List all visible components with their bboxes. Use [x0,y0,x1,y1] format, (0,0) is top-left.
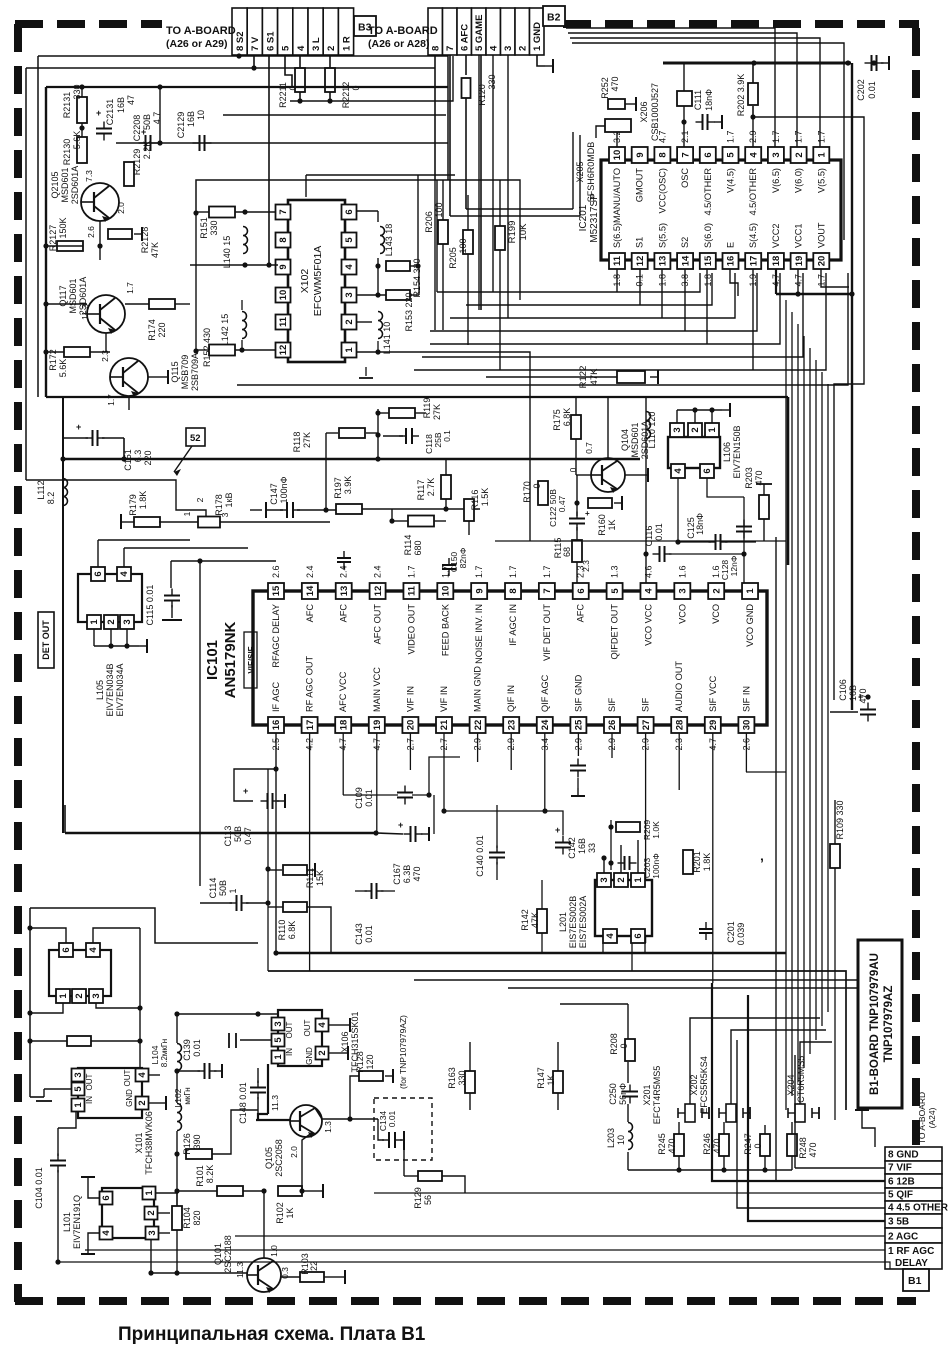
svg-text:SIF: SIF [641,697,651,712]
svg-text:2: 2 [711,588,722,593]
svg-text:50B: 50B [218,880,228,896]
svg-text:10: 10 [278,290,289,301]
svg-text:C109: C109 [354,787,364,809]
svg-text:56nФ: 56nФ [618,1083,628,1105]
svg-text:0.47: 0.47 [557,495,567,512]
svg-text:4.5/OTHER: 4.5/OTHER [703,168,713,216]
svg-text:82nФ: 82nФ [458,548,468,569]
svg-text:R126: R126 [182,1133,192,1155]
svg-text:IF AGC IN: IF AGC IN [508,604,518,646]
svg-text:6: 6 [93,571,104,576]
svg-text:14: 14 [305,585,316,596]
svg-text:23: 23 [506,720,517,731]
svg-text:R128: R128 [355,1051,365,1073]
svg-text:V(6.0): V(6.0) [794,168,804,193]
svg-text:R111: R111 [305,868,315,888]
svg-text:1 R: 1 R [341,36,352,51]
svg-text:SFSH6R0MDB: SFSH6R0MDB [586,142,596,203]
svg-text:25: 25 [574,719,585,730]
svg-text:8: 8 [658,152,669,157]
svg-text:4: 4 [119,571,130,577]
svg-text:28: 28 [674,720,685,731]
svg-text:FEED BACK: FEED BACK [440,603,450,656]
svg-text:L105: L105 [95,680,105,700]
svg-text:V(6.5): V(6.5) [771,168,781,193]
svg-text:C142: C142 [567,837,577,859]
svg-text:OUT: OUT [285,1021,294,1038]
svg-text:0.47: 0.47 [243,827,253,845]
svg-text:Q105: Q105 [264,1147,274,1169]
svg-text:R152 430: R152 430 [202,328,212,367]
svg-text:7: 7 [278,209,289,214]
svg-text:CSB1000J527: CSB1000J527 [650,83,660,141]
svg-text:L112: L112 [36,480,46,499]
svg-text:C2129: C2129 [176,112,186,139]
svg-text:IN: IN [85,1096,94,1104]
svg-text:R174: R174 [147,319,157,341]
svg-text:VCC1: VCC1 [794,223,804,248]
svg-text:4: 4 [644,588,655,594]
svg-text:+: + [398,820,403,830]
svg-text:E: E [726,242,736,248]
svg-text:5: 5 [281,45,292,51]
svg-text:4: 4 [748,152,759,158]
svg-text:L203: L203 [606,1128,616,1148]
svg-text:330: 330 [487,74,497,89]
svg-text:8.2: 8.2 [46,492,56,505]
svg-text:MSD601: MSD601 [630,422,640,457]
svg-text:33: 33 [587,843,597,853]
svg-text:X101: X101 [134,1132,144,1153]
svg-text:VCO: VCO [711,604,721,624]
svg-text:18: 18 [771,256,782,267]
svg-text:TO A-BOARD: TO A-BOARD [368,25,438,37]
svg-text:3: 3 [599,877,610,882]
svg-text:2: 2 [317,1050,328,1055]
svg-text:4: 4 [137,1072,148,1078]
svg-text:IC101: IC101 [204,640,221,680]
svg-text:GND: GND [125,1089,134,1107]
svg-text:8: 8 [278,237,289,242]
svg-text:C116: C116 [644,526,654,547]
svg-text:390: 390 [192,1134,202,1149]
svg-text:6.3B: 6.3B [402,865,412,884]
svg-text:SIF: SIF [607,697,617,712]
svg-text:TFCH38MVK06: TFCH38MVK06 [144,1111,154,1175]
svg-text:29: 29 [708,720,719,731]
svg-text:OSC: OSC [680,168,690,188]
svg-text:DET OUT: DET OUT [41,620,51,660]
svg-text:B1: B1 [908,1275,922,1287]
svg-text:R163: R163 [447,1067,457,1089]
svg-text:OUT: OUT [123,1069,132,1086]
svg-text:MAIN VCC: MAIN VCC [372,667,382,712]
svg-text:10: 10 [441,586,452,597]
svg-text:R110: R110 [277,920,287,941]
svg-text:7.3: 7.3 [84,170,94,182]
svg-text:6: 6 [633,933,644,938]
svg-text:L140 15: L140 15 [222,236,232,269]
svg-text:2.2K: 2.2K [142,141,152,160]
svg-text:R160: R160 [597,514,607,536]
svg-text:12: 12 [635,256,646,267]
svg-text:R252: R252 [600,77,610,99]
svg-text:R116: R116 [470,490,480,511]
svg-text:0: 0 [532,483,542,488]
svg-text:1K: 1K [607,519,617,530]
svg-text:R202 3.9K: R202 3.9K [736,74,746,117]
svg-text:21: 21 [439,719,450,730]
svg-text:R109 330: R109 330 [835,800,845,839]
svg-text:5.6K: 5.6K [72,131,82,150]
svg-text:12nФ: 12nФ [729,556,739,577]
svg-text:5: 5 [610,588,621,594]
svg-text:R170: R170 [522,481,532,503]
svg-text:15K: 15K [315,870,325,886]
svg-text:5: 5 [273,1037,284,1043]
svg-text:VCC(OSC): VCC(OSC) [657,168,667,213]
svg-text:3: 3 [503,46,514,51]
svg-text:15: 15 [703,255,714,266]
svg-text:X206: X206 [639,101,649,122]
svg-text:7: 7 [542,588,553,593]
svg-text:3: 3 [771,152,782,157]
svg-text:2: 2 [518,46,529,51]
svg-text:17: 17 [748,256,759,267]
svg-text:C114: C114 [208,878,218,899]
svg-text:EIS7ES002B: EIS7ES002B [568,896,578,949]
svg-text:6: 6 [702,468,713,473]
svg-text:R118: R118 [292,432,302,453]
svg-text:16B: 16B [577,838,587,854]
svg-text:1.7: 1.7 [542,565,552,578]
svg-text:R129: R129 [413,1187,423,1209]
svg-text:MAIN GND: MAIN GND [473,666,483,712]
svg-text:5: 5 [344,237,355,243]
svg-text:16B: 16B [116,97,126,113]
svg-text:11: 11 [612,255,623,266]
svg-text:VCO: VCO [677,604,687,624]
svg-text:DELAY: DELAY [895,1258,928,1269]
svg-text:R2212: R2212 [341,82,351,109]
svg-text:4: 4 [673,468,684,474]
svg-text:11: 11 [407,585,418,596]
svg-text:470: 470 [412,866,422,881]
svg-text:6: 6 [61,947,72,952]
svg-text:16: 16 [726,256,737,267]
svg-text:3: 3 [273,1021,284,1026]
svg-text:1.7: 1.7 [125,282,135,294]
svg-text:C2131: C2131 [105,99,115,126]
svg-text:L106: L106 [722,442,732,462]
svg-text:47K: 47K [150,242,160,258]
svg-text:100: 100 [458,238,468,253]
svg-text:EFCS5R5KS4: EFCS5R5KS4 [699,1056,709,1114]
svg-text:680: 680 [413,540,423,555]
svg-text:0.01: 0.01 [364,925,374,943]
svg-text:C202: C202 [856,79,866,101]
svg-text:EIV7EN034B: EIV7EN034B [105,663,115,716]
svg-text:15: 15 [271,585,282,596]
svg-text:+: + [585,509,590,518]
svg-text:L143 18: L143 18 [384,224,394,257]
svg-text:L101: L101 [62,1212,72,1232]
svg-text:3: 3 [122,619,133,624]
svg-text:2.7K: 2.7K [426,478,436,497]
svg-text:AN5179NK: AN5179NK [222,621,239,698]
svg-text:Принципальная схема. Плата B1: Принципальная схема. Плата B1 [118,1324,426,1345]
svg-text:4: 4 [296,45,307,51]
svg-text:VCO VCC: VCO VCC [643,604,653,646]
svg-text:2 AGC: 2 AGC [888,1232,918,1243]
svg-text:SIF IN: SIF IN [741,686,751,712]
svg-text:1: 1 [273,1054,284,1060]
svg-text:2: 2 [616,877,627,882]
svg-text:S(6.0): S(6.0) [703,223,713,248]
svg-text:+: + [96,108,101,118]
svg-text:2SC2058: 2SC2058 [274,1139,284,1177]
svg-text:3: 3 [91,993,102,998]
svg-text:0.1: 0.1 [442,430,452,442]
svg-text:4: 4 [344,264,355,270]
svg-text:C147: C147 [269,483,279,505]
svg-text:3.9K: 3.9K [343,476,353,495]
svg-text:1.7: 1.7 [474,565,484,578]
svg-text:L142 15: L142 15 [220,314,230,347]
svg-text:2: 2 [326,46,337,51]
svg-text:VCC2: VCC2 [771,223,781,248]
svg-text:8: 8 [431,46,442,51]
svg-text:2: 2 [137,1100,148,1105]
svg-text:10: 10 [616,1135,626,1145]
svg-text:1: 1 [817,152,828,158]
svg-text:R2130: R2130 [62,139,72,166]
svg-text:+: + [141,127,146,137]
svg-text:6 AFC: 6 AFC [460,24,471,51]
svg-text:MSB709: MSB709 [180,355,190,390]
svg-text:TNP107979AZ: TNP107979AZ [883,986,895,1063]
svg-text:0.01: 0.01 [192,1039,202,1057]
svg-text:QIFDET OUT: QIFDET OUT [610,604,620,660]
svg-text:27: 27 [641,720,652,731]
svg-text:1: 1 [144,1190,155,1196]
svg-text:VIF/SIF: VIF/SIF [247,646,256,673]
svg-text:6 S1: 6 S1 [265,31,276,51]
svg-text:9: 9 [474,588,485,593]
svg-text:0: 0 [568,467,578,472]
svg-text:6: 6 [344,209,355,214]
svg-text:2: 2 [146,1210,157,1215]
svg-text:мкГн: мкГн [183,1087,192,1104]
svg-text:22: 22 [473,720,484,731]
svg-text:2.4: 2.4 [305,565,315,578]
svg-text:1.0: 1.0 [269,1245,279,1257]
svg-text:13: 13 [658,256,669,267]
svg-text:+: + [243,786,248,796]
svg-text:EIV7EN150B: EIV7EN150B [732,425,742,478]
svg-text:OUT: OUT [303,1019,312,1036]
svg-text:RFAGC DELAY: RFAGC DELAY [271,604,281,668]
svg-text:(for TNP107979AZ): (for TNP107979AZ) [398,1015,408,1089]
svg-text:R179: R179 [128,494,138,516]
svg-text:MSD601: MSD601 [60,167,70,202]
svg-text:B1-BOARD TNP107979AU: B1-BOARD TNP107979AU [869,953,881,1095]
svg-text:1.7: 1.7 [771,130,781,143]
svg-text:0.7: 0.7 [584,442,594,454]
svg-text:MSD601: MSD601 [68,278,78,313]
svg-text:’: ’ [760,855,764,871]
svg-text:470: 470 [712,1138,722,1153]
svg-text:18nФ: 18nФ [695,513,705,535]
svg-text:C106: C106 [838,679,848,701]
svg-text:VIF IN: VIF IN [405,686,415,712]
svg-text:27K: 27K [432,404,442,420]
svg-text:Q115: Q115 [170,361,180,382]
svg-text:VIF DET OUT: VIF DET OUT [542,604,552,661]
svg-text:QIF IN: QIF IN [506,685,516,712]
svg-text:6.8K: 6.8K [562,408,572,427]
svg-text:6.3: 6.3 [133,450,143,463]
svg-text:1 GND: 1 GND [532,22,543,51]
svg-text:2.1: 2.1 [680,130,690,143]
svg-text:0.01: 0.01 [364,789,374,807]
svg-text:8 GND: 8 GND [888,1150,919,1161]
svg-text:4 4.5 OTHER: 4 4.5 OTHER [888,1203,949,1214]
svg-text:20: 20 [817,256,828,267]
svg-text:2SB709A: 2SB709A [190,353,200,391]
svg-text:R245: R245 [657,1133,667,1155]
svg-text:C167: C167 [392,863,402,885]
svg-text:30: 30 [742,720,753,731]
svg-text:AFC VCC: AFC VCC [338,671,348,712]
svg-text:VOUT: VOUT [816,222,826,248]
svg-text:S2: S2 [680,237,690,248]
svg-text:2.0: 2.0 [289,1146,299,1158]
svg-text:EIS7ES002A: EIS7ES002A [578,896,588,949]
svg-text:R206: R206 [424,211,434,233]
svg-text:11.3: 11.3 [80,304,90,320]
svg-text:1кB: 1кB [224,493,234,508]
svg-text:1: 1 [707,427,718,433]
svg-text:6.8K: 6.8K [287,921,297,940]
svg-text:6: 6 [101,1195,112,1200]
svg-text:Q2105: Q2105 [50,171,60,198]
svg-text:7: 7 [680,152,691,157]
svg-text:27K: 27K [302,432,312,448]
svg-text:R248: R248 [798,1137,808,1159]
svg-text:GMOUT: GMOUT [635,168,645,203]
svg-text:1.8K: 1.8K [702,853,712,872]
svg-text:R201: R201 [692,851,702,873]
svg-text:8 S2: 8 S2 [235,31,246,51]
svg-text:5: 5 [73,1086,84,1092]
svg-text:4.5/OTHER: 4.5/OTHER [748,168,758,216]
svg-text:1.0K: 1.0K [651,821,661,839]
svg-text:220: 220 [157,322,167,337]
svg-text:52: 52 [190,433,201,444]
svg-text:2.3: 2.3 [581,560,591,572]
svg-text:2.0: 2.0 [116,202,126,214]
svg-text:19: 19 [372,720,383,731]
svg-text:R2129: R2129 [132,149,142,176]
svg-text:0.039: 0.039 [736,923,746,946]
svg-text:2SC2188: 2SC2188 [223,1235,233,1273]
svg-text:10: 10 [612,150,623,161]
svg-text:R119: R119 [422,398,432,419]
svg-text:EFCT4R5MS5: EFCT4R5MS5 [652,1066,662,1125]
svg-text:11.3: 11.3 [235,1262,245,1278]
svg-text:+: + [76,422,81,432]
svg-text:18: 18 [338,720,349,731]
svg-text:VIDEO OUT: VIDEO OUT [406,604,416,655]
svg-text:R197: R197 [333,477,343,499]
svg-text:5 GAME: 5 GAME [474,15,485,51]
svg-text:0: 0 [619,1043,629,1048]
svg-text:8.2K: 8.2K [205,1165,215,1184]
svg-text:20: 20 [406,720,417,731]
svg-text:330: 330 [209,220,219,235]
svg-text:V(4.5): V(4.5) [726,168,736,193]
svg-text:13: 13 [339,586,350,597]
svg-text:2: 2 [74,993,85,998]
svg-text:AFC OUT: AFC OUT [373,604,383,645]
svg-text:R104: R104 [182,1207,192,1229]
svg-text:4.6: 4.6 [643,565,653,578]
svg-text:R153 220: R153 220 [404,292,414,331]
svg-text:4: 4 [88,947,99,953]
svg-text:6: 6 [576,588,587,593]
svg-text:(A26 or A28): (A26 or A28) [368,38,429,50]
svg-text:R178: R178 [214,494,224,516]
svg-text:1K: 1K [546,1074,556,1085]
svg-text:R208: R208 [609,1033,619,1055]
svg-text:1: 1 [182,511,192,516]
svg-text:10K: 10K [518,223,529,241]
svg-text:C148 0.01: C148 0.01 [238,1082,248,1124]
svg-text:AFC: AFC [339,604,349,623]
svg-text:TO A-BOARD: TO A-BOARD [166,25,236,37]
svg-text:R114: R114 [403,535,413,556]
svg-text:R205: R205 [448,247,458,269]
svg-text:2SD601A: 2SD601A [70,166,80,205]
svg-text:7 V: 7 V [250,36,261,51]
svg-text:RF AGC OUT: RF AGC OUT [305,655,315,712]
svg-text:12: 12 [278,345,289,356]
svg-text:1.8K: 1.8K [138,491,148,510]
svg-text:R151: R151 [199,217,209,239]
svg-text:1.7: 1.7 [106,394,116,406]
svg-text:47: 47 [126,95,136,105]
svg-text:1.7: 1.7 [440,565,450,578]
svg-text:AFC: AFC [576,604,586,623]
svg-text:0.01: 0.01 [387,1110,397,1127]
svg-text:8.2мкГн: 8.2мкГн [160,1039,169,1067]
svg-text:18nФ: 18nФ [704,89,714,111]
svg-text:1.6: 1.6 [677,565,687,578]
svg-text:C111: C111 [693,90,703,110]
svg-text:QIF AGC: QIF AGC [540,674,550,712]
svg-text:3: 3 [147,1230,158,1235]
svg-text:AUDIO OUT: AUDIO OUT [674,661,684,712]
svg-text:19: 19 [794,256,805,267]
svg-text:Q117: Q117 [58,285,68,306]
svg-text:470: 470 [667,1138,677,1153]
svg-text:5: 5 [726,152,737,158]
svg-text:2.6: 2.6 [271,565,281,578]
svg-text:R142: R142 [520,909,530,931]
svg-text:S1: S1 [635,237,645,248]
svg-text:1.7: 1.7 [406,565,416,578]
